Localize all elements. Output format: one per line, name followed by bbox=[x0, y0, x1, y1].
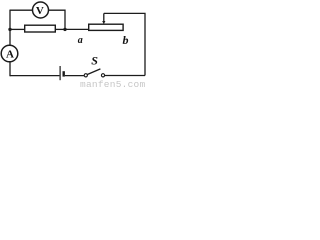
switch S1 left terminal bbox=[84, 74, 87, 77]
wire slider top to right edge bbox=[104, 13, 145, 75]
wire bottom from left corner to battery bbox=[10, 75, 59, 77]
wire top-left horizontal from corner to voltmeter bbox=[10, 9, 32, 11]
wire left vertical lower segment to bottom corner bbox=[9, 62, 12, 76]
junction right node bbox=[63, 28, 66, 31]
wire middle from left junction to resistor bbox=[10, 28, 25, 30]
rheostat R2 body bbox=[89, 24, 123, 30]
svg-text:V: V bbox=[36, 5, 44, 17]
battery BT1 positive long plate bbox=[59, 66, 61, 80]
resistor R1 bbox=[25, 25, 56, 32]
wire battery to switch bbox=[65, 75, 84, 77]
battery BT1 negative short plate bbox=[63, 71, 65, 76]
wire voltmeter right to corner and down to junction bbox=[49, 10, 65, 29]
wire middle from right junction to rheostat terminal a bbox=[65, 28, 89, 30]
node b label bbox=[123, 33, 129, 47]
switch S label bbox=[91, 54, 98, 68]
wire switch to bottom right corner bbox=[105, 75, 145, 77]
wire left vertical upper segment bbox=[9, 10, 11, 46]
svg-text:S: S bbox=[91, 54, 98, 68]
svg-text:b: b bbox=[123, 33, 129, 47]
svg-text:manfen5.com: manfen5.com bbox=[80, 79, 146, 88]
rheostat slider wiper arrow bbox=[102, 13, 105, 24]
svg-text:a: a bbox=[78, 35, 83, 46]
voltmeter U1 (V) bbox=[33, 2, 49, 18]
switch S1 lever blade bbox=[87, 69, 100, 75]
node a label bbox=[78, 35, 83, 46]
ammeter U2 (A) bbox=[1, 45, 18, 62]
svg-text:A: A bbox=[6, 48, 14, 60]
junction left node bbox=[8, 28, 11, 31]
switch S1 right terminal bbox=[101, 74, 104, 77]
wire middle from resistor to right junction bbox=[55, 28, 65, 30]
watermark text bbox=[80, 79, 146, 90]
